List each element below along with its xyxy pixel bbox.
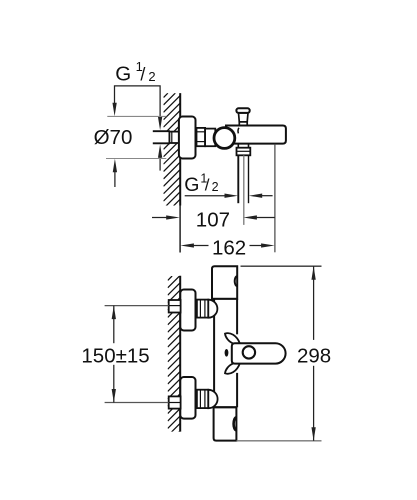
- upper escutcheon (front): [180, 290, 195, 331]
- svg-text:G: G: [115, 62, 131, 85]
- svg-text:/: /: [140, 65, 145, 85]
- lever circle: [243, 346, 255, 358]
- adapter cone: [205, 129, 215, 147]
- 298 dim: [313, 266, 315, 340]
- cap bump: [235, 276, 237, 286]
- upper wall hex: [169, 300, 181, 313]
- svg-text:/: /: [205, 176, 210, 195]
- svg-text:Ø70: Ø70: [94, 126, 133, 149]
- 298 extension lines: [241, 265, 322, 267]
- svg-text:162: 162: [212, 237, 246, 260]
- temperature mark dot: [225, 349, 229, 357]
- upper union nut (front): [197, 300, 208, 318]
- diverter knob: [236, 108, 249, 125]
- 107 dim: [152, 217, 168, 219]
- 150±15 dim: [113, 306, 115, 344]
- label G1/2 lower: [184, 172, 218, 196]
- outlet neck: [237, 144, 239, 148]
- svg-text:2: 2: [212, 180, 219, 194]
- lever handle pill: [232, 343, 286, 363]
- Ø70 extension lines: [107, 115, 166, 117]
- hose outlet bump: [234, 417, 237, 430]
- mixer body (side view): [226, 126, 286, 144]
- lower escutcheon (front): [180, 377, 195, 419]
- nipple in wall: [169, 132, 179, 143]
- body detail arc: [237, 128, 240, 134]
- outlet pipe lines: [237, 155, 239, 203]
- lever upper ear: [225, 333, 240, 343]
- svg-text:150±15: 150±15: [81, 345, 149, 368]
- escutcheon (side view): [179, 117, 196, 159]
- body bottom outlet (front): [214, 407, 237, 440]
- svg-text:2: 2: [148, 69, 155, 84]
- svg-text:107: 107: [196, 208, 230, 231]
- 150 upper extension line: [105, 305, 169, 307]
- svg-text:298: 298: [297, 344, 331, 367]
- extension line body end: [274, 144, 276, 253]
- G1/2 top leader lines: [115, 86, 161, 118]
- 162 dim: [180, 243, 194, 247]
- 150 lower extension line: [105, 402, 169, 404]
- control knob circle: [214, 128, 235, 149]
- upper dome: [208, 300, 217, 318]
- lower wall hex: [169, 396, 181, 408]
- supply pipe stub: [153, 131, 180, 143]
- lower union nut (front): [197, 390, 208, 408]
- body top cap (front): [212, 266, 237, 299]
- Ø70 lower arrow: [114, 172, 116, 187]
- label G1/2 top: [115, 59, 155, 85]
- wire extension line wall: [179, 206, 181, 253]
- G1/2 lower dim: [185, 195, 226, 197]
- outlet collar: [237, 148, 251, 156]
- lower dome: [208, 390, 217, 408]
- G1/2 arrow below pipe: [159, 156, 161, 171]
- union nut (side view): [197, 128, 206, 146]
- svg-text:G: G: [184, 174, 199, 196]
- lever lower ear: [225, 363, 240, 373]
- body main (front): [214, 299, 237, 407]
- centre extension line: [243, 155, 245, 225]
